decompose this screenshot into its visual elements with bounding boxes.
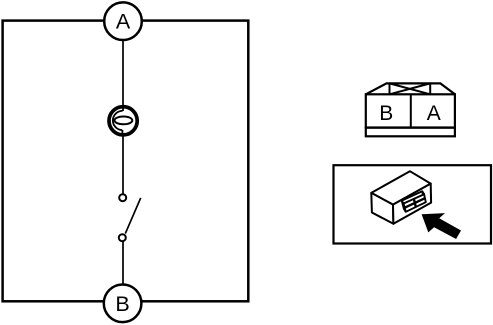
svg-text:A: A <box>427 102 441 125</box>
svg-text:B: B <box>115 292 129 316</box>
svg-text:B: B <box>379 102 393 125</box>
svg-text:A: A <box>116 10 131 34</box>
